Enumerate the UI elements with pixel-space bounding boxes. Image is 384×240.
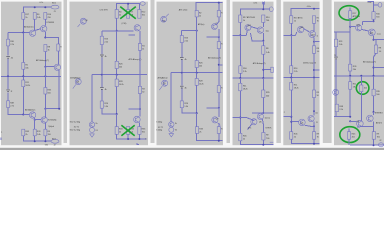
wire bottom bus <box>291 139 319 144</box>
node bottom bus junction <box>373 144 375 146</box>
resistor R8 <box>374 45 377 53</box>
transistor Q04 <box>309 31 316 38</box>
background white base <box>0 0 384 150</box>
PANEL4 <box>233 2 274 146</box>
node collector junction <box>313 110 315 112</box>
transistor Q9 <box>75 79 81 85</box>
wire Q6 emitter diag <box>248 124 252 129</box>
wire right stub <box>219 64 223 66</box>
transistor Q03 <box>257 27 263 33</box>
resistor R14 <box>57 44 60 51</box>
wire mid bus <box>171 72 223 74</box>
wire base rail <box>284 32 297 35</box>
wire Q link <box>251 27 258 29</box>
resistor R31 <box>217 86 220 93</box>
node lower rail junction <box>116 113 118 115</box>
wire R50 column <box>360 76 362 121</box>
panel 6 background <box>334 2 384 146</box>
wire emitter rail right <box>374 39 384 41</box>
resistor R36 <box>138 127 141 135</box>
wire R10 column to Q04 <box>313 23 315 31</box>
node Q05 base junction <box>349 26 351 28</box>
wire R3 to Q4 <box>216 17 219 25</box>
transistor Q8 <box>80 18 86 24</box>
wire left rail <box>334 31 350 33</box>
resistor R2 <box>195 11 198 17</box>
connector bottom right <box>270 141 274 143</box>
resistor R48 <box>335 104 338 112</box>
node lower rail junction <box>349 116 351 118</box>
wire Q04 emitter down <box>313 38 315 42</box>
wire mid bus <box>92 74 147 76</box>
wire Q03 collector up <box>262 22 264 27</box>
voltage source V1 <box>169 127 174 132</box>
resistor R34 crossed out <box>127 127 130 135</box>
node right column junction <box>218 64 220 66</box>
svg-text:ATX5c loop (?): ATX5c loop (?) <box>303 62 316 65</box>
node base junction <box>116 30 118 32</box>
gap 2 shadow band <box>151 0 155 143</box>
node base junction <box>290 34 292 36</box>
node collector rail right <box>58 108 60 110</box>
transistor M1 <box>89 122 94 127</box>
wire left column lower <box>101 75 103 101</box>
wire R5 column <box>22 33 24 77</box>
wire R13 column to mid bus <box>139 50 141 86</box>
wire Q7 emitter down <box>313 122 315 132</box>
wire R16 column <box>290 35 292 77</box>
resistor R6 <box>33 13 36 20</box>
resistor R26 <box>195 61 198 68</box>
gap 3 shadow band <box>227 0 231 143</box>
resistor R16 <box>290 66 293 74</box>
wire R8 column to node <box>44 52 46 67</box>
resistor R11 <box>349 82 352 90</box>
gap 5 shadow band <box>323 0 332 143</box>
wire R11 column <box>239 78 241 133</box>
svg-text:ATX white: ATX white <box>179 9 189 12</box>
node collector junction <box>373 111 375 113</box>
node emitter junction <box>44 37 46 39</box>
wire R6 column <box>34 19 36 30</box>
wire top rail <box>362 21 373 25</box>
transistor Q05 <box>356 25 362 31</box>
node emitter junction <box>262 40 264 42</box>
wire R8-R35 column mid <box>44 67 46 77</box>
battery V5 <box>6 90 10 92</box>
node right column junction <box>373 67 375 69</box>
transistor Q05 <box>29 30 35 36</box>
svg-text:(C10): (C10) <box>122 23 127 25</box>
svg-text:ATX(?): ATX(?) <box>376 121 382 124</box>
wire R16 column <box>239 35 241 78</box>
resistor R50 added <box>360 85 363 92</box>
wire mid bus <box>233 77 274 79</box>
wire bottom bus <box>117 134 147 139</box>
resistor R8 <box>312 46 315 54</box>
node base junction <box>196 30 198 32</box>
wire Q4 emitter down <box>218 29 220 37</box>
resistor R45 <box>290 132 293 140</box>
transistor Q5 <box>161 16 167 22</box>
transistor Q04 <box>245 25 251 31</box>
wire R31 column to collector node <box>139 94 141 110</box>
wire lower base rail to Q6 <box>23 114 29 116</box>
wire Q1 base rail <box>45 66 54 68</box>
wire left column lower <box>335 76 337 117</box>
transistor Q7 <box>308 116 314 122</box>
wire top bus <box>117 4 141 10</box>
node mid bus junction <box>290 77 292 79</box>
wire R4 column to base node <box>116 18 118 31</box>
wire collector rail <box>207 107 219 109</box>
svg-text:5.7k STR: 5.7k STR <box>100 9 109 11</box>
panel 3 background <box>157 2 224 146</box>
wire Q04 emitter down <box>373 36 375 40</box>
node collector junction <box>262 112 264 114</box>
net flag <box>262 2 265 9</box>
wire R17 column <box>290 23 292 35</box>
wire mid bus left drop <box>170 73 172 122</box>
wire emitter rail <box>207 36 219 38</box>
svg-text:5(k)rail: 5(k)rail <box>48 125 54 128</box>
node mid bus junction 2 <box>196 72 198 74</box>
svg-text:K7005(N): K7005(N) <box>48 119 57 121</box>
wire R8 column <box>374 40 377 76</box>
resistor R11 <box>22 80 25 87</box>
wire lower left rail <box>334 116 350 118</box>
wire R35 column <box>373 76 375 112</box>
wire R10 column <box>44 19 46 25</box>
resistor R35 <box>44 88 47 95</box>
svg-text:R17 ATX5: R17 ATX5 <box>294 17 304 20</box>
wire R35 column <box>44 76 46 108</box>
wire J lead <box>374 4 379 6</box>
node lower left junction 2 <box>290 121 292 123</box>
resistor R8 <box>262 46 265 54</box>
wire R28 column down to R33 <box>116 114 118 127</box>
transistor Q9 <box>162 80 168 86</box>
transistor Q2 <box>134 25 140 31</box>
resistor R33 <box>196 127 199 134</box>
wire collector rail <box>129 108 140 110</box>
resistor R13 <box>138 44 141 51</box>
PANEL6 <box>333 2 384 147</box>
wire R19 column <box>218 37 220 72</box>
green X annotation bottom <box>121 125 134 135</box>
resistor R16 <box>7 39 10 46</box>
wire R11 column <box>349 76 351 117</box>
wire R31 column <box>218 73 220 108</box>
node bottom bus junction 2 <box>44 140 46 142</box>
node emitter junction <box>313 41 315 43</box>
resistor R33 <box>33 129 36 136</box>
wire base rail <box>181 30 196 32</box>
svg-text:ATX(w): ATX(w) <box>198 23 205 26</box>
transistor Q7 <box>367 115 374 122</box>
wire right stub 2 <box>314 69 319 71</box>
node lower rail junction <box>196 112 198 114</box>
node collector junction <box>44 108 46 110</box>
PANEL2 <box>70 2 147 145</box>
battery V4 <box>334 57 338 59</box>
wire mid bus <box>284 77 320 79</box>
connector J2 <box>378 143 383 147</box>
wire Q link <box>304 29 310 32</box>
resistor R7 crossed out <box>127 10 130 19</box>
svg-text:K12 6.2 4kg: K12 6.2 4kg <box>70 130 81 132</box>
node Q6 emitter junction <box>34 119 36 121</box>
green circle annotation 3 <box>340 127 360 143</box>
wire R28 column down <box>196 113 198 127</box>
node collector junction <box>218 107 220 109</box>
resistor R12 <box>138 10 141 19</box>
svg-text:stereo: stereo <box>265 117 271 120</box>
wire right stub <box>374 67 384 69</box>
battery V4 <box>100 55 104 57</box>
resistor R36 <box>217 127 220 134</box>
connector J top right <box>378 3 382 8</box>
resistor edge right <box>271 67 274 72</box>
wire lower left rail 2 <box>291 121 298 123</box>
resistor R17 <box>22 13 25 20</box>
node lower left junction 1 <box>290 116 292 118</box>
resistor R45 <box>239 133 242 141</box>
wire R26 column <box>116 31 118 75</box>
resistor R4 <box>115 10 118 19</box>
node collector junction <box>139 108 141 110</box>
node bottom bus junction <box>313 143 315 145</box>
wire Q7 collector stub <box>313 111 315 115</box>
connector top right <box>140 2 145 6</box>
wire R11 column <box>22 76 24 114</box>
wire R35 column <box>262 78 264 113</box>
wire collector rail <box>45 108 59 110</box>
transistor Q7 <box>41 117 47 123</box>
node right column junction <box>313 69 315 71</box>
resistor R26 <box>115 61 118 68</box>
wire R2 column <box>196 17 198 31</box>
wire R17 column <box>239 22 241 35</box>
resistor R16 <box>239 66 242 74</box>
PANEL3 <box>156 2 223 142</box>
wire Q05 to Q04 link <box>34 29 40 31</box>
svg-text:stoc: stoc <box>266 29 270 32</box>
wire left column upper <box>180 31 183 73</box>
resistor R26 <box>349 64 352 71</box>
resistor R24 <box>180 101 183 108</box>
wire top bus <box>240 9 269 15</box>
wire R24 to lower rail <box>182 108 197 113</box>
wire left edge stub <box>0 137 2 140</box>
bottom outer strip <box>0 148 384 150</box>
resistor R35 <box>372 89 375 96</box>
transistor Q04 <box>41 26 47 32</box>
svg-text:ATX(A)Gain: ATX(A)Gain <box>25 109 36 112</box>
transistor Q04 <box>368 29 375 36</box>
wire Q7 emitter down <box>218 123 220 127</box>
panel 1 background <box>1 2 62 146</box>
wire right rail <box>263 69 271 71</box>
svg-text:ATX-A-loop-(?): ATX-A-loop-(?) <box>208 57 221 60</box>
connector BU1 <box>51 5 59 9</box>
node Q1 base junction <box>44 66 46 68</box>
panel 5 background <box>283 2 319 146</box>
node bottom bus junction 1 <box>34 140 36 142</box>
green circle annotation 1 <box>339 6 359 20</box>
transistor Q6 <box>299 119 306 126</box>
node emitter junction <box>373 39 375 41</box>
wire lower left rail 1 <box>284 116 292 118</box>
gap 4 shadow band <box>276 0 281 143</box>
transistor Q6 <box>251 119 257 125</box>
resistor R17 <box>290 16 293 23</box>
node bottom bus junction 1 <box>127 138 129 140</box>
battery V4 <box>180 58 184 60</box>
resistor R9 <box>44 129 47 136</box>
wire R17 top stub <box>349 8 351 11</box>
battery V5 <box>100 88 104 90</box>
node top bus junction <box>313 8 315 10</box>
wire bottom bus <box>23 136 51 141</box>
wire Q7 collector stub <box>373 112 375 115</box>
wire lower left rail <box>233 118 254 121</box>
resistor R9 <box>372 132 375 140</box>
wire bottom bus <box>197 133 223 140</box>
node top bus junction <box>127 3 129 5</box>
wire base rail <box>102 30 134 32</box>
wire R26 column <box>196 31 198 73</box>
transistor Q05 <box>297 26 303 32</box>
node mid bus junction 1 <box>101 74 103 76</box>
panel 4 background <box>233 2 274 146</box>
wire top bus <box>196 3 223 11</box>
wire top bus <box>23 7 51 12</box>
resistor R35 <box>262 90 265 98</box>
svg-text:6 24kg: 6 24kg <box>156 122 163 124</box>
resistor R10 <box>44 13 47 20</box>
wire base rail <box>8 32 29 34</box>
svg-text:ATX-A-loop-(?): ATX-A-loop-(?) <box>36 59 49 62</box>
green X annotation top <box>120 7 136 19</box>
node top bus junction 1 <box>34 6 36 8</box>
resistor R10 <box>372 12 375 20</box>
voltage source V1 <box>90 128 95 133</box>
resistor R17 <box>239 15 242 22</box>
wire R8 column <box>262 41 264 78</box>
svg-text:0.9s: 0.9s <box>254 2 258 4</box>
wire emitter rail right <box>45 38 58 45</box>
transistor Q1 <box>54 64 60 70</box>
wire top bus <box>367 2 373 12</box>
wire emitter stub right <box>314 41 319 43</box>
svg-text:ATX5 1k: ATX5 1k <box>353 15 361 18</box>
resistor R19 <box>217 42 220 49</box>
wire R26 column <box>349 32 351 76</box>
green circle annotation 2 <box>356 82 369 95</box>
wire R14 column to Q1 collector <box>57 51 59 65</box>
wire Q6 emitter rail diag <box>305 125 314 126</box>
resistor R24 <box>100 101 103 108</box>
transistor M1 <box>169 122 174 127</box>
wire R35 column <box>313 78 315 112</box>
wire Q2 base stub <box>129 34 135 36</box>
node mid bus junction 2 <box>116 74 118 76</box>
resistor R17 <box>349 11 352 18</box>
resistor R45 <box>22 129 25 136</box>
svg-text:ATX-A-loop-(?): ATX-A-loop-(?) <box>253 62 266 65</box>
wire left column upper <box>101 31 103 75</box>
node R8 lower junction <box>262 69 264 71</box>
wire R28 column <box>116 75 118 114</box>
node emitter junction <box>218 36 220 38</box>
wire Q6 emitter column down <box>34 120 36 130</box>
wire left column lower <box>181 73 183 101</box>
node top bus junction <box>218 2 220 4</box>
node bottom bus junction <box>218 140 220 142</box>
wire Q6 emitter rail to Q7 <box>35 118 41 120</box>
node mid bus junction 1 <box>239 77 241 79</box>
resistor R5 <box>22 63 25 70</box>
transistor Q9 <box>333 89 339 95</box>
wire R17 column <box>349 18 351 32</box>
wire emitter rail <box>251 33 264 41</box>
wire left column upper <box>7 33 9 77</box>
wire bottom bus <box>349 139 384 145</box>
wire Q7 collector up <box>44 109 46 117</box>
svg-text:-0.9s: -0.9s <box>307 6 311 8</box>
svg-text:R17 ATX5546: R17 ATX5546 <box>243 16 256 19</box>
svg-text:-1.0s: -1.0s <box>367 2 371 4</box>
node emitter rail junction <box>313 125 315 127</box>
resistor R31 <box>138 86 141 93</box>
wire Q7 emitter down <box>138 123 140 127</box>
wire R28 column <box>196 73 198 113</box>
svg-text:STR?k: STR?k <box>265 127 272 129</box>
wire R48 to lower base rail <box>8 108 23 115</box>
node mid bus junction mid <box>22 75 24 77</box>
wire bottom bus <box>240 140 273 145</box>
resistor R8 <box>44 45 47 52</box>
panel 2 background <box>70 2 149 146</box>
wire base rail <box>233 31 248 36</box>
gap 1 shadow band <box>64 0 68 143</box>
svg-text:6 24kg: 6 24kg <box>156 130 163 132</box>
transistor Q4 <box>212 24 218 30</box>
wire Q7 emitter down <box>373 122 375 132</box>
node Q6 base junction <box>349 120 351 122</box>
transistor Q7 <box>134 116 141 123</box>
wire R24 to lower rail <box>102 108 117 114</box>
svg-text:STEREO: STEREO <box>375 113 384 115</box>
node mid bus junction 2 <box>262 77 264 79</box>
resistor R28 <box>195 79 198 86</box>
node bottom bus junction 2 <box>138 138 140 140</box>
wire left column upper <box>335 32 337 76</box>
battery V4 <box>6 56 10 58</box>
ground <box>90 134 95 137</box>
resistor R11 <box>290 83 293 91</box>
resistor R45 <box>347 132 350 140</box>
resistor R23 <box>180 36 183 43</box>
ground <box>169 134 174 137</box>
svg-text:0.7s: 0.7s <box>40 2 44 4</box>
svg-text:ATX(A)Gain: ATX(A)Gain <box>158 76 169 79</box>
svg-text:ATX(white): ATX(white) <box>24 25 34 28</box>
node base junction <box>239 34 241 36</box>
node mid bus junction 2 <box>373 75 375 77</box>
node mid bus junction right <box>44 75 46 77</box>
